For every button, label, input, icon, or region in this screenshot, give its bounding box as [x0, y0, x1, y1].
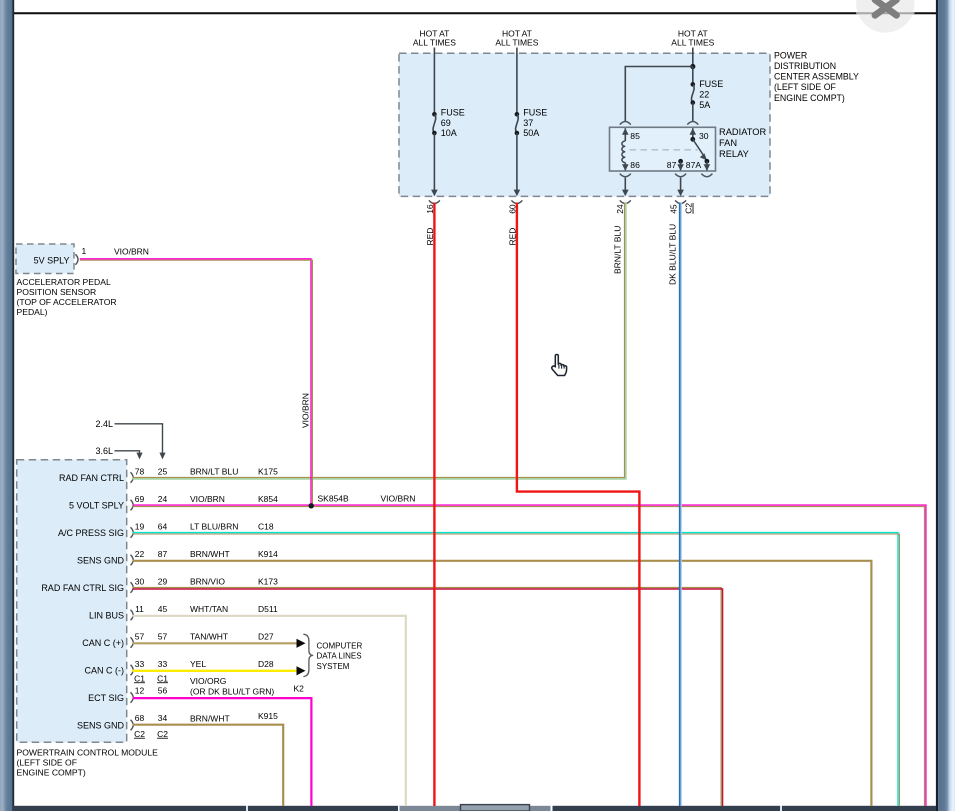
svg-text:45: 45: [668, 204, 678, 214]
brace: computer data lines system: [303, 634, 313, 676]
svg-text:1: 1: [82, 246, 87, 256]
svg-text:69: 69: [135, 494, 145, 504]
wire: fuse 22 output to relay pin 30: [692, 103, 694, 121]
label: HOT AT ALL TIMES (fuse 37 feed): [495, 28, 538, 47]
pin label 60: [508, 204, 518, 214]
bottom scrollbar track segment 1: [13, 806, 246, 811]
svg-text:(TOP OF ACCELERATOR: (TOP OF ACCELERATOR: [17, 297, 117, 307]
fuse F69 10A: [432, 112, 437, 135]
svg-text:K2: K2: [294, 684, 305, 694]
label: WHT/TAN D511: [190, 604, 278, 614]
svg-text:37: 37: [523, 118, 533, 128]
svg-text:FUSE: FUSE: [699, 79, 723, 89]
wire K175 BRN/LT BLU from PCM 78/25 to PDC pin 24: [133, 203, 627, 480]
svg-text:SENS GND: SENS GND: [77, 555, 125, 565]
svg-text:VIO/BRN: VIO/BRN: [381, 494, 416, 504]
pin label 30: [699, 131, 709, 141]
connector arc pin 24: [620, 200, 631, 203]
connector arc above relay pin 30: [687, 122, 698, 125]
relay coil: [622, 141, 625, 163]
svg-text:ACCELERATOR PEDAL: ACCELERATOR PEDAL: [17, 277, 111, 287]
relay pin 87A node and stub: [704, 159, 711, 171]
svg-text:57: 57: [135, 631, 145, 641]
svg-text:30: 30: [699, 131, 709, 141]
svg-text:ALL TIMES: ALL TIMES: [413, 38, 456, 48]
svg-text:2.4L: 2.4L: [95, 419, 113, 429]
bottom scrollbar track segment 2: [248, 806, 398, 811]
svg-text:SK854B: SK854B: [318, 494, 350, 504]
mouse hand cursor: [552, 354, 567, 375]
label: YEL D28: [190, 659, 274, 669]
svg-text:C2: C2: [134, 729, 145, 739]
relay pin 85 stub with up arrow: [622, 128, 629, 141]
pin label 87A: [686, 160, 702, 170]
label: VIO/ORG (OR DK BLU/LT GRN) K2: [190, 676, 304, 697]
bottom scrollbar gap 1: [246, 806, 248, 811]
svg-text:34: 34: [158, 713, 168, 723]
bottom scrollbar track segment 4: [782, 806, 936, 811]
label: 5V SPLY: [34, 255, 70, 265]
svg-text:K173: K173: [258, 576, 278, 586]
svg-text:LT BLU/BRN: LT BLU/BRN: [190, 521, 238, 531]
svg-text:CENTER ASSEMBLY: CENTER ASSEMBLY: [774, 72, 859, 82]
pin label C2 (PDC connector): [684, 203, 694, 214]
svg-text:ENGINE COMPT): ENGINE COMPT): [774, 93, 845, 103]
power distribution center assembly box: [399, 53, 770, 196]
splice node SK854B: [309, 494, 350, 509]
PCM row LIN BUS: label, connector, pins: [89, 604, 168, 621]
svg-text:RED: RED: [425, 228, 435, 246]
svg-text:64: 64: [158, 521, 168, 531]
svg-text:POWER: POWER: [774, 51, 807, 61]
connector arc above relay pin 85: [620, 122, 631, 125]
label: 3.6L pointer: [95, 446, 142, 459]
svg-text:D511: D511: [258, 604, 278, 614]
label: VIO/BRN vertical on sensor drop wire: [301, 393, 311, 428]
svg-text:FUSE: FUSE: [523, 107, 547, 117]
svg-text:69: 69: [441, 118, 451, 128]
svg-text:FUSE: FUSE: [441, 107, 465, 117]
svg-text:85: 85: [630, 131, 640, 141]
pin label 24: [615, 204, 625, 214]
relay switch blade 30 to 87A: [693, 139, 707, 160]
svg-text:RADIATOR: RADIATOR: [719, 127, 766, 137]
connector arc pin 60: [511, 200, 522, 203]
svg-text:12: 12: [135, 686, 145, 696]
connector arc below relay pin 87A: [701, 174, 712, 177]
svg-text:33: 33: [158, 659, 168, 669]
PCM row ECT SIG: label, connector, pins: [88, 686, 167, 703]
svg-text:POWERTRAIN CONTROL MODULE: POWERTRAIN CONTROL MODULE: [17, 748, 159, 758]
wire: branch from junction to relay pin 85: [625, 67, 693, 122]
svg-text:YEL: YEL: [190, 659, 206, 669]
wire: battery feed into fuse 37: [516, 48, 518, 115]
svg-text:ALL TIMES: ALL TIMES: [671, 38, 714, 48]
label: TAN/WHT D27: [190, 631, 274, 641]
svg-text:RED: RED: [508, 228, 518, 246]
svg-text:25: 25: [158, 466, 168, 476]
accelerator pedal position sensor box: [16, 244, 74, 274]
svg-text:DK BLU/LT BLU: DK BLU/LT BLU: [667, 224, 677, 285]
svg-text:22: 22: [699, 89, 709, 99]
PCM row RAD FAN CTRL SIG: label, connector, pins: [41, 576, 167, 593]
svg-text:VIO/BRN: VIO/BRN: [190, 494, 225, 504]
label: FUSE 37 50A: [523, 107, 547, 138]
svg-text:C2: C2: [684, 203, 694, 214]
svg-text:RELAY: RELAY: [719, 149, 749, 159]
svg-text:K914: K914: [258, 549, 278, 559]
label: POWER DISTRIBUTION CENTER ASSEMBLY: [774, 51, 859, 103]
wire: relay pin 86 to connector 24: [622, 178, 629, 197]
PCM row 5 VOLT SPLY: label, connector, pins: [69, 494, 168, 511]
svg-text:56: 56: [158, 686, 168, 696]
PCM row CAN C (-): label, connector, pins: [85, 659, 168, 676]
connector arc pin 45: [675, 200, 686, 203]
connector arc pin 16: [429, 200, 440, 203]
svg-text:LIN BUS: LIN BUS: [89, 610, 124, 620]
pin label 45: [668, 204, 678, 214]
left page gutter bar: [0, 0, 14, 811]
svg-text:D28: D28: [258, 659, 274, 669]
svg-text:C1: C1: [157, 673, 168, 683]
powertrain control module box: [17, 460, 127, 743]
label: COMPUTER DATA LINES SYSTEM: [317, 641, 363, 671]
svg-text:24: 24: [158, 494, 168, 504]
svg-text:87: 87: [667, 160, 677, 170]
svg-text:RAD FAN CTRL SIG: RAD FAN CTRL SIG: [41, 583, 124, 593]
close button circle: [856, 0, 914, 33]
fuse F37 50A: [515, 112, 520, 135]
svg-text:C18: C18: [258, 521, 274, 531]
label: VIO/BRN K854: [190, 494, 278, 504]
bottom scrollbar track segment 3: [553, 806, 781, 811]
svg-text:CAN C (-): CAN C (-): [85, 665, 125, 675]
svg-text:FAN: FAN: [719, 138, 737, 148]
relay pin 86 stub with down arrow: [622, 163, 629, 171]
wire: fuse 69 output to connector 16: [431, 133, 438, 196]
PCM row SENS GND: label, connector, pins: [77, 549, 168, 566]
label: FUSE 69 10A: [441, 107, 465, 138]
svg-text:PEDAL): PEDAL): [17, 307, 48, 317]
wire VIO/BRN from accelerator pedal sensor pin 1 to splice: [80, 259, 313, 505]
bottom scrollbar grip box: [461, 805, 530, 811]
wire K173 BRN/VIO from PCM 30/29 to bottom edge: [133, 588, 723, 806]
wire K2 VIO/ORG from PCM 12/56 to bottom edge: [133, 698, 312, 806]
svg-text:DATA LINES: DATA LINES: [317, 652, 362, 661]
label: RED vertical (pin 16 wire): [425, 228, 435, 246]
svg-text:VIO/BRN: VIO/BRN: [301, 393, 311, 428]
svg-text:ECT SIG: ECT SIG: [88, 693, 124, 703]
svg-text:BRN/VIO: BRN/VIO: [190, 576, 225, 586]
pin label 16: [425, 204, 435, 214]
connector arc below relay pin 86: [620, 174, 631, 177]
svg-text:87: 87: [158, 549, 168, 559]
svg-text:WHT/TAN: WHT/TAN: [190, 604, 228, 614]
bottom scrollbar thumb: [400, 806, 551, 811]
wire RED circuit from PDC pin 16 to bottom edge: [433, 203, 435, 807]
svg-text:C1: C1: [134, 673, 145, 683]
wire K915 BRN/WHT from PCM 68/34 to bottom edge: [133, 725, 284, 806]
pin label 86: [630, 160, 640, 170]
radiator fan relay box: [610, 127, 716, 171]
svg-text:BRN/LT BLU: BRN/LT BLU: [612, 226, 622, 274]
pin label C2 C2: [134, 729, 168, 739]
svg-text:45: 45: [158, 604, 168, 614]
wire DK BLU/LT BLU from PDC pin 45 to bottom edge: [680, 203, 682, 807]
PCM row RAD FAN CTRL: label, connector, pins: [59, 466, 168, 483]
relay internal dashed divider: [630, 149, 698, 151]
label: BRN/LT BLU vertical (pin 24 wire): [612, 226, 622, 274]
svg-text:DISTRIBUTION: DISTRIBUTION: [774, 61, 836, 71]
relay pin 87 node and stub: [677, 159, 684, 171]
svg-text:BRN/LT BLU: BRN/LT BLU: [190, 466, 238, 476]
svg-text:24: 24: [615, 204, 625, 214]
svg-text:50A: 50A: [523, 128, 539, 138]
label: RADIATOR FAN RELAY: [719, 127, 766, 159]
PCM row CAN C (+): label, connector, pins: [82, 631, 167, 648]
svg-text:19: 19: [135, 521, 145, 531]
wire D27 TAN/WHT from PCM 57/57 to computer data lines arrow: [133, 639, 306, 648]
svg-text:5 VOLT SPLY: 5 VOLT SPLY: [69, 500, 124, 510]
label: LT BLU/BRN C18: [190, 521, 274, 531]
relay pin 30 stub with up arrow and node: [690, 128, 697, 142]
fuse F22 5A: [691, 67, 696, 105]
svg-text:86: 86: [630, 160, 640, 170]
svg-text:ENGINE COMPT): ENGINE COMPT): [17, 768, 86, 778]
close button X icon: [875, 0, 897, 15]
label: POWERTRAIN CONTROL MODULE caption: [17, 748, 159, 778]
svg-text:SENS GND: SENS GND: [77, 720, 125, 730]
label: ACCELERATOR PEDAL POSITION SENSOR caption: [17, 277, 117, 317]
svg-text:68: 68: [135, 713, 145, 723]
PCM row SENS GND 2: label, connector, pins: [77, 713, 168, 731]
label: BRN/WHT K915: [190, 711, 278, 723]
wire: battery feed into fuse 69: [433, 48, 435, 115]
svg-text:33: 33: [135, 659, 145, 669]
svg-text:29: 29: [158, 576, 168, 586]
svg-text:BRN/WHT: BRN/WHT: [190, 713, 230, 723]
wire: fuse 37 output to connector 60: [514, 133, 521, 196]
label: VIO/BRN right of splice: [381, 494, 416, 504]
label: VIO/BRN (sensor wire): [114, 247, 149, 257]
svg-text:K915: K915: [258, 711, 278, 721]
svg-text:VIO/ORG: VIO/ORG: [190, 676, 226, 686]
wire: relay pin 87 to connector 45: [677, 178, 684, 197]
svg-text:30: 30: [135, 576, 145, 586]
wire D28 YEL from PCM 33/33 to computer data lines arrow: [133, 666, 306, 675]
connector arc sensor pin 1: [75, 254, 78, 265]
wire: battery feed to junction above fuse 22: [692, 48, 694, 67]
svg-text:K854: K854: [258, 494, 278, 504]
pin label 1: [82, 246, 87, 256]
label: HOT AT ALL TIMES (fuse 69 feed): [413, 28, 456, 47]
wire D511 WHT/TAN from PCM 11/45 to bottom edge: [133, 616, 406, 806]
junction node above fuse 22: [690, 64, 695, 69]
label: HOT AT ALL TIMES (fuse 22 feed): [671, 28, 714, 47]
svg-text:11: 11: [135, 604, 144, 614]
label: RED vertical (pin 60 wire): [508, 228, 518, 246]
svg-text:57: 57: [158, 631, 168, 641]
svg-text:87A: 87A: [686, 160, 702, 170]
bottom scrollbar gap 2: [780, 806, 782, 811]
wire K854 VIO/BRN from PCM 69/24 to bottom edge: [133, 505, 926, 806]
svg-text:C2: C2: [157, 729, 168, 739]
svg-text:VIO/BRN: VIO/BRN: [114, 247, 149, 257]
svg-text:10A: 10A: [441, 128, 457, 138]
svg-text:(LEFT SIDE OF: (LEFT SIDE OF: [17, 758, 77, 768]
pin label C1 C1: [134, 673, 168, 683]
svg-text:K175: K175: [258, 466, 278, 476]
wire RED circuit from PDC pin 60 to bottom edge: [517, 203, 640, 807]
svg-text:5V SPLY: 5V SPLY: [34, 255, 70, 265]
label: DK BLU/LT BLU vertical (pin 45 wire): [667, 224, 677, 285]
label: BRN/WHT K914: [190, 549, 278, 559]
svg-text:3.6L: 3.6L: [95, 446, 113, 456]
PCM row A/C PRESS SIG: label, connector, pins: [58, 521, 168, 538]
svg-text:TAN/WHT: TAN/WHT: [190, 631, 228, 641]
svg-text:SYSTEM: SYSTEM: [317, 662, 350, 671]
svg-text:BRN/WHT: BRN/WHT: [190, 549, 230, 559]
label: BRN/VIO K173: [190, 576, 278, 586]
svg-text:5A: 5A: [699, 100, 710, 110]
wire K914 BRN/WHT from PCM 22/87 to bottom edge: [133, 561, 872, 806]
label: BRN/LT BLU K175: [190, 466, 278, 476]
viewer top border line: [13, 12, 937, 14]
connector arc below relay pin 87: [675, 174, 686, 177]
label: 2.4L pointer: [95, 419, 165, 459]
svg-text:CAN C (+): CAN C (+): [82, 638, 124, 648]
svg-text:22: 22: [135, 549, 145, 559]
svg-text:COMPUTER: COMPUTER: [317, 641, 363, 650]
svg-text:ALL TIMES: ALL TIMES: [495, 38, 538, 48]
svg-text:A/C PRESS SIG: A/C PRESS SIG: [58, 528, 124, 538]
svg-text:(OR DK BLU/LT GRN): (OR DK BLU/LT GRN): [190, 686, 274, 696]
pin label 85: [630, 131, 640, 141]
pin label 87: [667, 160, 677, 170]
svg-text:RAD FAN CTRL: RAD FAN CTRL: [59, 473, 124, 483]
label: FUSE 22 5A: [699, 79, 723, 110]
right page gutter bar: [936, 0, 955, 811]
svg-text:D27: D27: [258, 631, 274, 641]
svg-text:78: 78: [135, 466, 145, 476]
svg-text:POSITION SENSOR: POSITION SENSOR: [17, 287, 97, 297]
svg-text:(LEFT SIDE OF: (LEFT SIDE OF: [774, 82, 837, 92]
wire C18 LT BLU/BRN from PCM 19/64 to bottom edge: [133, 533, 900, 806]
